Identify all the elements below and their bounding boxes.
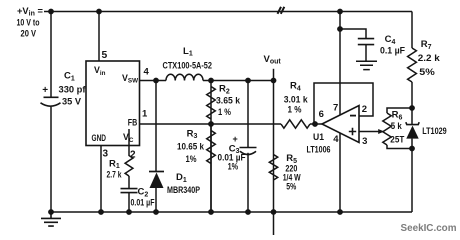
svg-text:LT1006: LT1006 bbox=[307, 144, 331, 155]
wire break mark on top rail bbox=[278, 7, 285, 14]
svg-text:330 pf: 330 pf bbox=[59, 84, 87, 95]
wire left input rail upper bbox=[50, 12, 52, 97]
capacitor C4 bbox=[358, 39, 374, 45]
svg-text:0.01 µF: 0.01 µF bbox=[131, 198, 155, 209]
svg-text:2.7 k: 2.7 k bbox=[107, 170, 123, 181]
op-amp minus input mark bbox=[350, 115, 356, 117]
resistor R6 potentiometer bbox=[383, 113, 391, 145]
svg-text:4: 4 bbox=[144, 67, 150, 78]
diode D1 wire lower bbox=[155, 188, 157, 212]
wire op-amp plus input stub bbox=[359, 131, 382, 133]
regulator IC box bbox=[86, 61, 140, 146]
wire LT1029 upper bbox=[411, 108, 413, 125]
wire top rail corner to R7 bbox=[411, 12, 413, 49]
svg-text:5%: 5% bbox=[419, 67, 435, 78]
svg-text:0.1 µF: 0.1 µF bbox=[380, 45, 405, 56]
svg-text:CTX100-5A-52: CTX100-5A-52 bbox=[163, 61, 213, 72]
node junction supply on top rail bbox=[337, 9, 343, 15]
svg-text:1: 1 bbox=[142, 108, 148, 119]
node junction R5 ground bbox=[271, 209, 277, 215]
node junction R3 ground bbox=[208, 209, 214, 215]
wire R4 to op-amp output bbox=[310, 123, 322, 125]
node junction VSW-D1 bbox=[153, 78, 159, 84]
node junction Vout/R5 bbox=[271, 78, 277, 84]
op-amp plus input mark bbox=[349, 128, 356, 135]
zener reference D2 LT1029 bbox=[406, 122, 419, 124]
node junction pin3 ground bbox=[98, 209, 104, 215]
capacitor C3 wire upper bbox=[247, 81, 249, 148]
node junction C3 tap bbox=[245, 78, 251, 84]
resistor R2 bbox=[207, 81, 216, 212]
resistor R4 bbox=[281, 120, 310, 128]
wire top supply rail bbox=[44, 11, 412, 13]
svg-text:5 k: 5 k bbox=[391, 121, 403, 132]
diode D1 bbox=[149, 171, 164, 173]
node junction C4 tap bbox=[337, 26, 343, 32]
capacitor C2 wire lower bbox=[128, 193, 130, 212]
wire op-amp pin7 supply bbox=[339, 12, 341, 116]
diode D1 wire upper bbox=[155, 81, 157, 172]
wire left input rail lower bbox=[50, 107, 52, 212]
resistor R3 bbox=[207, 124, 216, 212]
wire op-amp pin4 down bbox=[339, 133, 341, 212]
node junction R2-R3-FB bbox=[208, 121, 214, 127]
svg-text:4: 4 bbox=[333, 134, 339, 145]
svg-text:LT1029: LT1029 bbox=[422, 126, 447, 137]
svg-text:1 %: 1 % bbox=[218, 107, 231, 118]
svg-text:10 V to: 10 V to bbox=[17, 17, 40, 28]
svg-text:3: 3 bbox=[362, 136, 367, 147]
wire right rail to ground bbox=[411, 149, 413, 213]
svg-text:20 V: 20 V bbox=[21, 29, 37, 40]
svg-text:7: 7 bbox=[333, 102, 338, 113]
svg-text:2: 2 bbox=[362, 104, 367, 115]
node junction pin5 on top rail bbox=[96, 9, 102, 15]
svg-text:5: 5 bbox=[102, 50, 108, 61]
capacitor C3 wire lower bbox=[247, 153, 249, 212]
svg-text:MBR340P: MBR340P bbox=[167, 185, 200, 196]
node junction C2 ground bbox=[126, 209, 132, 215]
node junction bottom-left bbox=[48, 209, 54, 215]
svg-text:U1: U1 bbox=[313, 132, 325, 143]
wire R6 top bbox=[387, 108, 412, 113]
ground main symbol bbox=[41, 212, 61, 226]
op-amp U1 triangle bbox=[322, 106, 359, 143]
node junction D1 ground bbox=[153, 209, 159, 215]
svg-text:1%: 1% bbox=[186, 154, 197, 165]
wire R7 to node bbox=[411, 82, 413, 108]
svg-text:FB: FB bbox=[128, 117, 138, 127]
capacitor C1 bbox=[41, 97, 61, 106]
node Vout stub bbox=[273, 69, 275, 81]
svg-text:SeekIC.com: SeekIC.com bbox=[401, 222, 457, 234]
wiper arrowhead bbox=[378, 129, 384, 134]
svg-text:5%: 5% bbox=[286, 182, 296, 193]
wire LT1029 lower bbox=[411, 139, 413, 149]
svg-text:35 V: 35 V bbox=[62, 97, 82, 108]
svg-text:GND: GND bbox=[92, 133, 107, 143]
wire pin 5 stub bbox=[98, 12, 100, 62]
svg-text:1%: 1% bbox=[228, 162, 239, 173]
capacitor C2 wire bbox=[128, 176, 130, 188]
ground symbol C4 bbox=[356, 61, 377, 69]
resistor R7 bbox=[408, 48, 417, 82]
node junction LT1029 bottom bbox=[409, 146, 415, 152]
resistor R1 bbox=[125, 129, 133, 176]
wire C4 stub bbox=[340, 29, 366, 38]
node junction R2 tap bbox=[208, 78, 214, 84]
svg-text:3: 3 bbox=[103, 148, 109, 159]
capacitor C3 bbox=[240, 148, 257, 155]
wire FB net bbox=[140, 123, 282, 125]
wire feedback loop out to minus bbox=[314, 83, 373, 124]
wire R6 bottom bbox=[387, 145, 412, 149]
inductor L1 bbox=[166, 74, 203, 80]
node junction pin4 ground bbox=[337, 209, 343, 215]
svg-text:3.65 k: 3.65 k bbox=[216, 96, 241, 107]
svg-text:1 %: 1 % bbox=[288, 104, 302, 115]
node junction output-feedback bbox=[312, 121, 318, 127]
svg-text:+: + bbox=[42, 85, 48, 96]
wire C4 to ground bbox=[365, 45, 367, 61]
svg-text:2.2 k: 2.2 k bbox=[418, 53, 441, 64]
svg-text:10.65 k: 10.65 k bbox=[177, 142, 205, 153]
node junction top-left rail bbox=[48, 9, 54, 15]
svg-text:25T: 25T bbox=[390, 135, 404, 146]
wire VSW pin4 stub bbox=[140, 80, 167, 82]
wire output rail bbox=[203, 80, 274, 82]
capacitor C2 bbox=[121, 189, 138, 193]
node junction C3 ground bbox=[245, 209, 251, 215]
node junction R6 top bbox=[409, 105, 415, 111]
wire bottom ground rail bbox=[51, 211, 412, 213]
svg-text:6: 6 bbox=[319, 109, 324, 120]
wire IC GND pin3 bbox=[100, 146, 102, 213]
resistor R5 bbox=[269, 81, 277, 240]
